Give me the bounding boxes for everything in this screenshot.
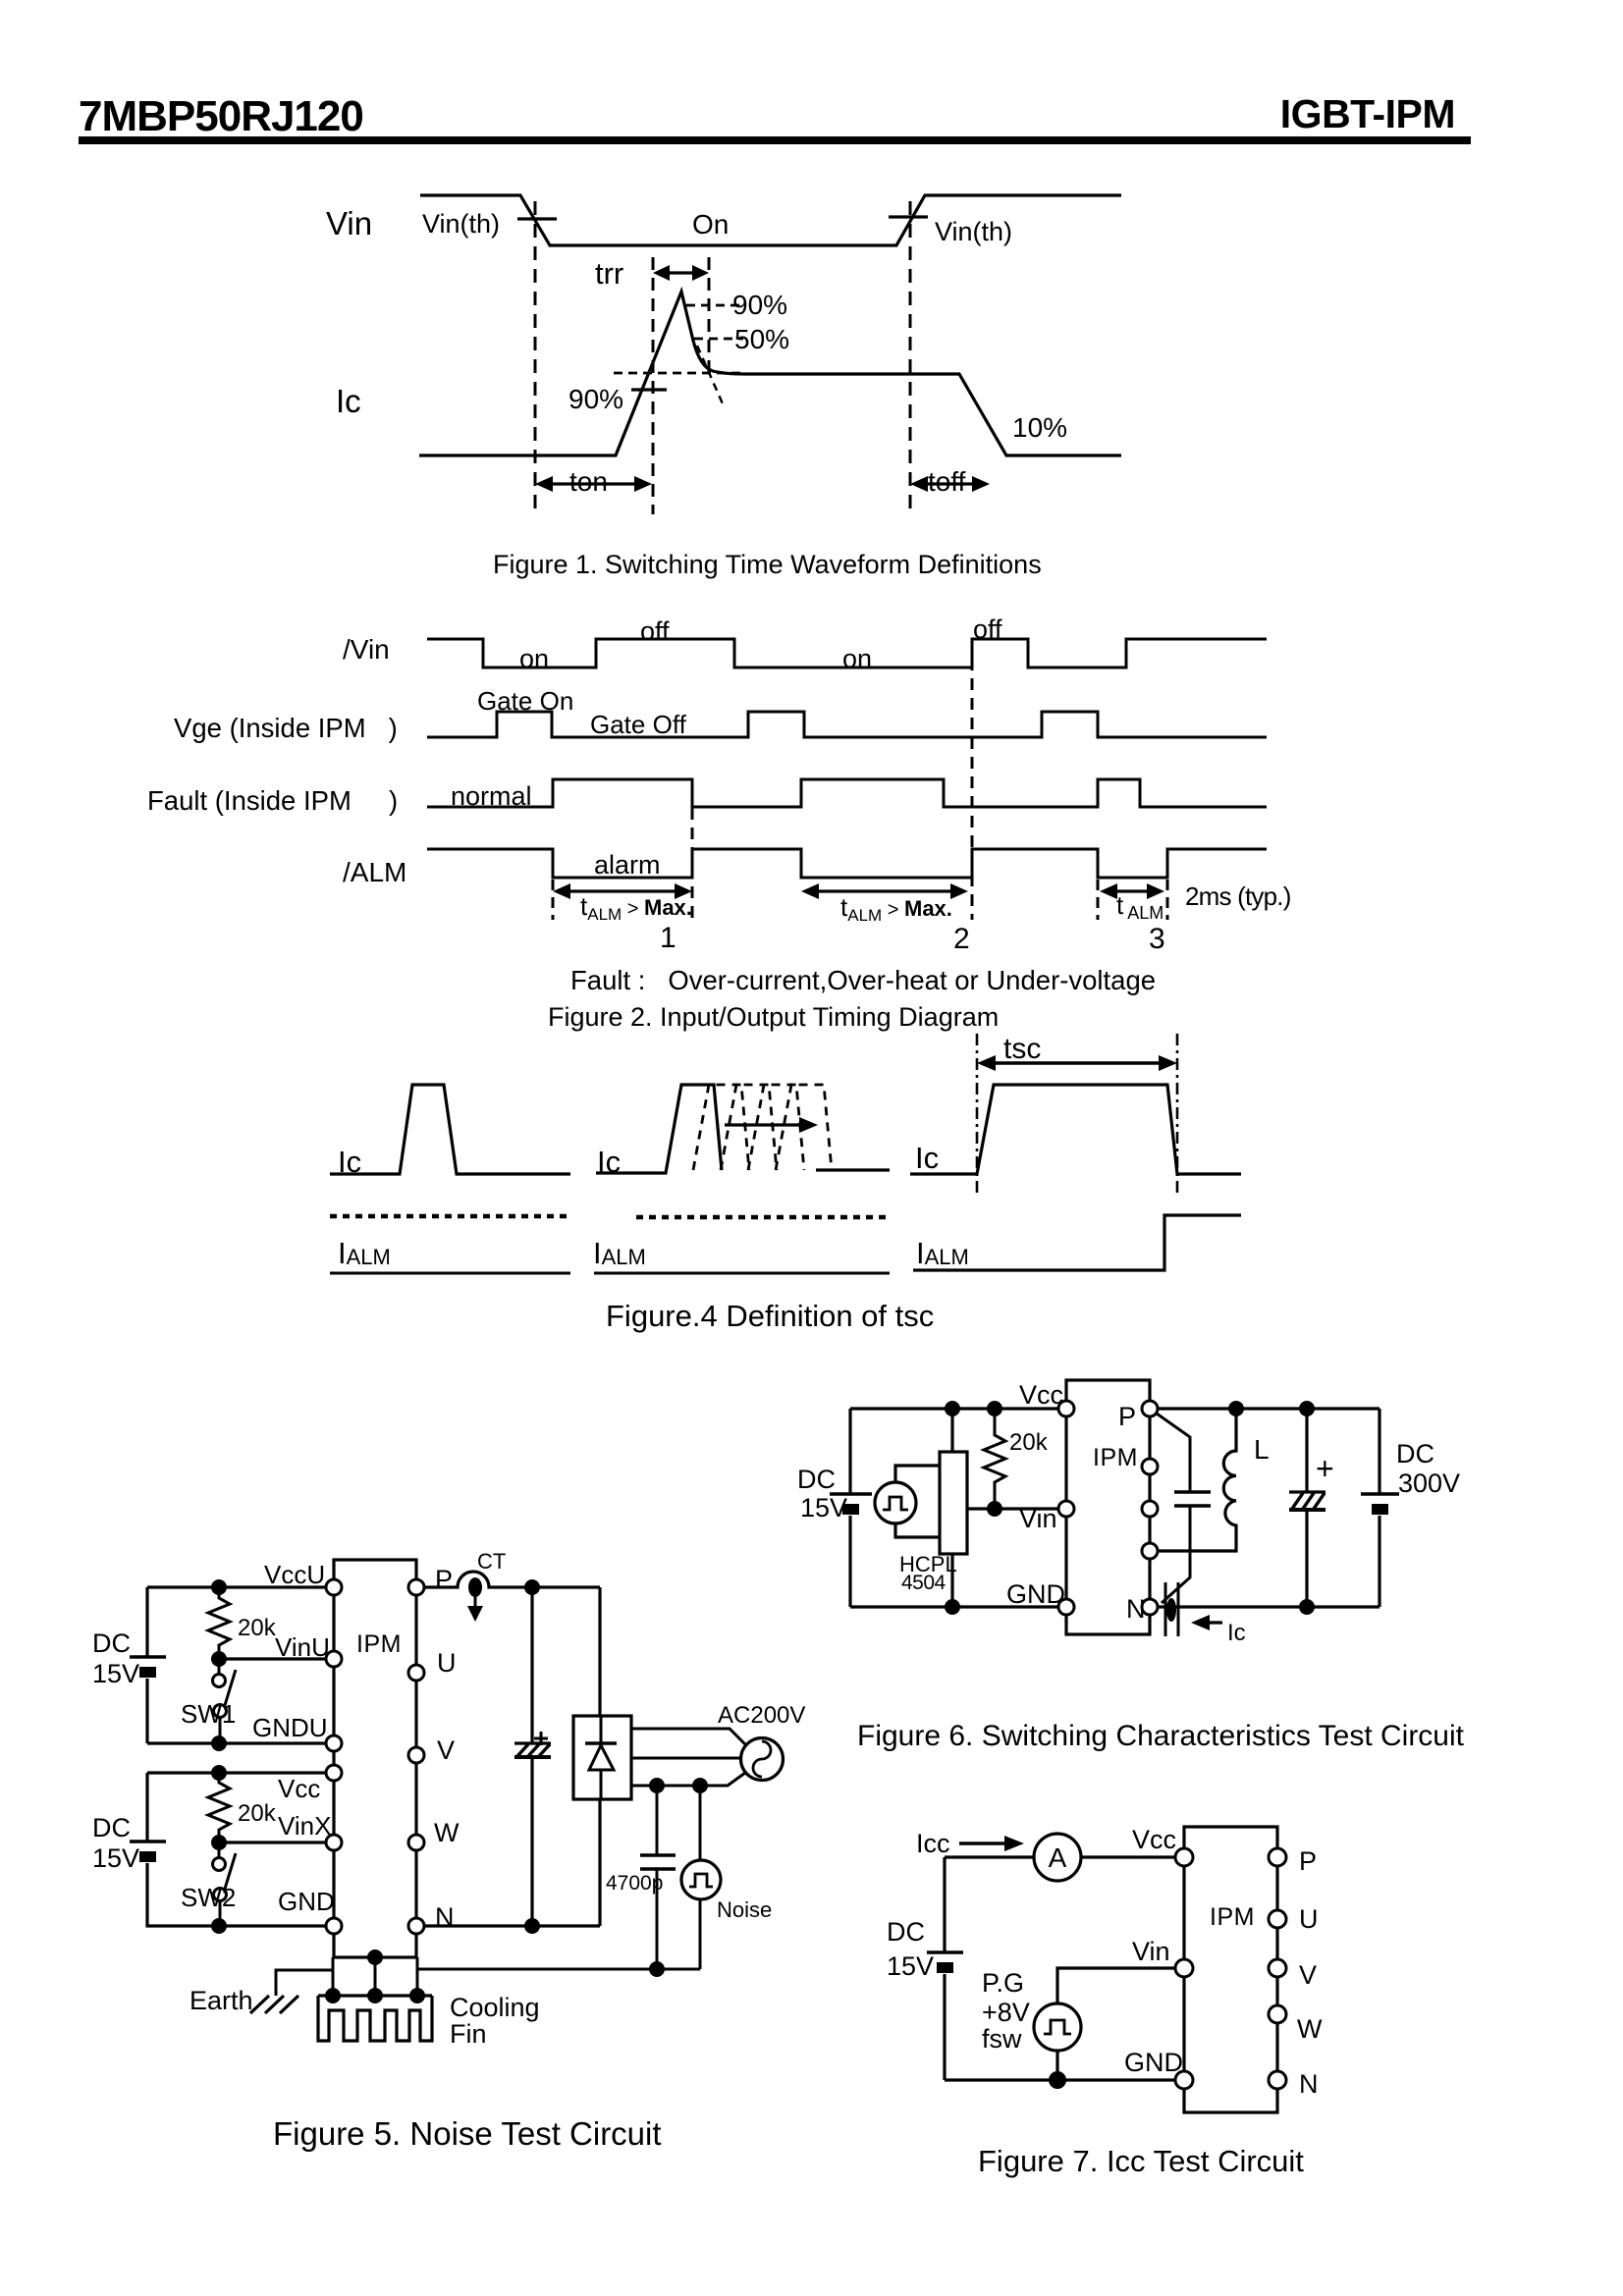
wire IPM base left stub bbox=[332, 1957, 335, 1996]
terminal N (fig5) bbox=[408, 1918, 424, 1934]
svg-text:VinX: VinX bbox=[278, 1811, 331, 1841]
wire noise upper bbox=[699, 1786, 702, 1860]
electrolytic capacitor (fig5) bbox=[514, 1743, 551, 1757]
terminal U (fig5) bbox=[408, 1665, 424, 1681]
wire Vcc left (fig7) bbox=[945, 1855, 1035, 1858]
wire rectifier to N (fig5) bbox=[598, 1799, 601, 1926]
junction dot GNDU bbox=[211, 1735, 227, 1751]
svg-text:Figure 7. Icc Test Circuit: Figure 7. Icc Test Circuit bbox=[978, 2144, 1304, 2178]
terminal V (fig5) bbox=[408, 1747, 424, 1763]
svg-text:V: V bbox=[437, 1735, 455, 1765]
AC source AC200V bbox=[741, 1738, 784, 1781]
terminal W (fig5) bbox=[408, 1835, 424, 1850]
capacitor 4700p bbox=[640, 1855, 676, 1869]
wire GND bottom (fig7) bbox=[945, 2078, 1175, 2081]
terminal Vcc2 bbox=[326, 1765, 342, 1781]
svg-text:CT: CT bbox=[477, 1549, 506, 1574]
panel3 IALM step waveform bbox=[913, 1215, 1241, 1270]
junction dot fin right bbox=[409, 1988, 425, 2003]
resistor 20k upper (fig5) bbox=[208, 1587, 230, 1659]
wire P top (fig6) bbox=[1158, 1407, 1380, 1410]
wire AC top bbox=[631, 1729, 745, 1744]
terminal right 4 (fig6) bbox=[1142, 1543, 1158, 1559]
svg-text:50%: 50% bbox=[734, 324, 789, 354]
svg-text:Vin: Vin bbox=[1019, 1504, 1057, 1533]
panel2 Ic waveform bbox=[596, 1085, 722, 1173]
svg-text:P: P bbox=[1299, 1846, 1317, 1876]
svg-text:W: W bbox=[1297, 2014, 1323, 2044]
IPM box (fig5) bbox=[334, 1560, 416, 1957]
svg-text:1: 1 bbox=[660, 922, 676, 954]
terminal P (fig7) bbox=[1269, 1848, 1286, 1866]
wire N bottom (fig6) bbox=[1158, 1605, 1380, 1608]
wire P diagonal to capacitor bbox=[1157, 1414, 1190, 1492]
svg-text:Vin(th): Vin(th) bbox=[422, 209, 500, 239]
noise source bbox=[681, 1860, 721, 1899]
terminal Vin (fig7) bbox=[1175, 1959, 1193, 1977]
svg-text:U: U bbox=[1299, 1904, 1319, 1934]
svg-text:fsw: fsw bbox=[982, 2024, 1022, 2054]
svg-text:Figure 6. Switching Characteri: Figure 6. Switching Characteristics Test… bbox=[857, 1720, 1465, 1752]
battery DC15V (fig6) bbox=[830, 1494, 872, 1515]
svg-text:normal: normal bbox=[451, 781, 532, 811]
/ALM waveform bbox=[427, 849, 1267, 878]
wire GND (fig6) bbox=[850, 1605, 1066, 1608]
wire AC bottom bbox=[631, 1773, 745, 1786]
svg-text:DC: DC bbox=[92, 1813, 131, 1842]
tsc arrow bbox=[977, 1055, 1177, 1071]
svg-text:Earth: Earth bbox=[189, 1986, 253, 2015]
wire VinX (fig5) bbox=[219, 1841, 327, 1843]
svg-text:Noise: Noise bbox=[717, 1897, 772, 1922]
terminal VinX bbox=[326, 1835, 342, 1850]
wire VinU (fig5) bbox=[219, 1657, 327, 1660]
svg-text:15V: 15V bbox=[800, 1493, 847, 1522]
current probe CT (fig5) bbox=[467, 1577, 483, 1622]
tALM2 arrow bbox=[801, 883, 968, 899]
svg-text:IGBT-IPM: IGBT-IPM bbox=[1280, 91, 1455, 136]
wire supply1 left vertical bbox=[145, 1587, 148, 1743]
dashed 50% leader bbox=[694, 338, 743, 341]
terminal VccU bbox=[326, 1579, 342, 1595]
panel2 IALM line bbox=[594, 1272, 890, 1275]
wire DC-link branch lower bbox=[530, 1757, 533, 1926]
dashed 90% leader bbox=[686, 304, 743, 307]
wire P.G to Vin (fig7) bbox=[1057, 1968, 1175, 2003]
svg-text:Fin: Fin bbox=[450, 2019, 487, 2049]
wire 4700p upper bbox=[656, 1786, 659, 1855]
svg-text:toff: toff bbox=[928, 466, 966, 497]
wire Vcc top (fig6) bbox=[850, 1407, 1066, 1410]
Vge waveform bbox=[427, 712, 1267, 737]
svg-text:off: off bbox=[973, 614, 1002, 644]
ammeter A bbox=[1034, 1834, 1081, 1881]
Fault waveform bbox=[427, 779, 1267, 807]
toff arrow bbox=[910, 476, 990, 492]
tALM1 arrow bbox=[553, 883, 692, 899]
terminal right 3 (fig6) bbox=[1142, 1501, 1158, 1517]
svg-text:Vcc: Vcc bbox=[1132, 1825, 1176, 1854]
svg-text:off: off bbox=[640, 616, 670, 646]
svg-text:90%: 90% bbox=[568, 384, 623, 414]
svg-text:DC: DC bbox=[92, 1629, 131, 1658]
svg-text:Gate On: Gate On bbox=[477, 686, 573, 716]
IPM box (fig6) bbox=[1066, 1380, 1150, 1634]
current probe CT (fig6) bbox=[1165, 1582, 1178, 1636]
junction dot VccU bbox=[211, 1579, 227, 1595]
terminal P (fig5) bbox=[408, 1579, 424, 1595]
tALM3 arrow bbox=[1100, 883, 1164, 899]
panel1 Ic waveform bbox=[330, 1085, 570, 1174]
dashed tail extrapolation bbox=[697, 346, 725, 408]
terminal V (fig7) bbox=[1269, 1959, 1286, 1977]
junction dot 20k top bbox=[987, 1401, 1002, 1416]
svg-text:SW1: SW1 bbox=[181, 1699, 236, 1729]
svg-text:+: + bbox=[1316, 1451, 1334, 1486]
/Vin waveform bbox=[427, 639, 1267, 667]
Icc arrow bbox=[959, 1836, 1024, 1851]
svg-text:4504: 4504 bbox=[901, 1572, 947, 1594]
svg-text:VccU: VccU bbox=[264, 1560, 325, 1589]
svg-text:Cooling: Cooling bbox=[450, 1993, 540, 2022]
svg-text:15V: 15V bbox=[92, 1659, 139, 1688]
Ic arrow (fig6) bbox=[1191, 1615, 1222, 1630]
svg-text:Ic: Ic bbox=[1227, 1620, 1246, 1646]
battery DC15V upper (fig5) bbox=[130, 1657, 166, 1678]
svg-text:on: on bbox=[842, 644, 872, 673]
junction dot GND (fig7) bbox=[1049, 2071, 1066, 2089]
svg-text:On: On bbox=[692, 209, 729, 240]
tick Vin(th) right bbox=[889, 215, 928, 218]
pulse generator source (fig6) bbox=[875, 1482, 916, 1523]
wire P.G to GND (fig7) bbox=[1055, 2051, 1058, 2080]
svg-text:Vin: Vin bbox=[1132, 1937, 1170, 1966]
wire right vertical upper (fig5) bbox=[598, 1587, 601, 1716]
trr arrow bbox=[653, 265, 709, 281]
terminal N (fig7) bbox=[1269, 2071, 1286, 2089]
wire Vcc2 (fig5) bbox=[147, 1771, 327, 1774]
panel2 ghost pulse 4 bbox=[776, 1085, 832, 1170]
wire P with CT hump bbox=[424, 1572, 600, 1587]
svg-text:ton: ton bbox=[569, 466, 608, 497]
svg-text:2: 2 bbox=[953, 923, 970, 955]
dashed Ic 100% level bbox=[614, 372, 745, 375]
battery DC15V (fig7) bbox=[927, 1952, 963, 1973]
svg-text:GND: GND bbox=[1006, 1579, 1065, 1609]
svg-text:15V: 15V bbox=[92, 1843, 139, 1873]
svg-text:DC: DC bbox=[1396, 1439, 1434, 1468]
terminal VinU bbox=[326, 1651, 342, 1667]
junction dot VinX bbox=[211, 1835, 227, 1850]
terminal right 2 (fig6) bbox=[1142, 1459, 1158, 1474]
wire supply2 left vertical bbox=[147, 1773, 327, 1926]
dashed stub left of tALM3 bbox=[1097, 880, 1100, 920]
svg-text:Figure 1. Switching Time Wavef: Figure 1. Switching Time Waveform Defini… bbox=[493, 550, 1042, 579]
dashed vertical at 2 bbox=[971, 639, 974, 920]
panel3 Ic waveform bbox=[910, 1085, 1241, 1174]
switch SW1 bbox=[213, 1659, 237, 1743]
junction dot Vcc2 bbox=[211, 1765, 227, 1781]
header rule bbox=[79, 136, 1471, 144]
svg-text:VinU: VinU bbox=[275, 1632, 330, 1662]
junction dot fin center bbox=[367, 1988, 383, 2003]
svg-text:90%: 90% bbox=[732, 290, 787, 320]
wire HCPL bottom bbox=[950, 1554, 953, 1607]
Vin waveform bbox=[420, 195, 1121, 245]
svg-text:300V: 300V bbox=[1398, 1468, 1460, 1498]
svg-text:trr: trr bbox=[595, 256, 623, 291]
junction dot VinU bbox=[211, 1651, 227, 1667]
battery DC15V lower (fig5) bbox=[130, 1842, 166, 1862]
Ic waveform bbox=[419, 292, 1121, 455]
junction dot electrolytic top bbox=[1299, 1401, 1315, 1416]
svg-text:W: W bbox=[434, 1818, 460, 1847]
wire right vertical (fig6) bbox=[1378, 1409, 1380, 1607]
wire noise lower bbox=[699, 1899, 702, 1969]
svg-text:DC: DC bbox=[887, 1917, 925, 1947]
dashed line ton-start bbox=[534, 201, 537, 508]
svg-text:/Vin: /Vin bbox=[343, 634, 390, 665]
svg-text:Figure 5. Noise Test Circuit: Figure 5. Noise Test Circuit bbox=[273, 2115, 662, 2152]
svg-text:Ic: Ic bbox=[915, 1141, 939, 1175]
wire 4700p lower bbox=[656, 1869, 659, 1969]
svg-text:20k: 20k bbox=[1009, 1429, 1049, 1456]
terminal GND (fig7) bbox=[1175, 2071, 1193, 2089]
battery DC300V bbox=[1361, 1494, 1399, 1515]
svg-text:P.G: P.G bbox=[982, 1968, 1024, 1998]
junction dot 4700p bbox=[649, 1778, 665, 1793]
terminal GND2 bbox=[326, 1918, 342, 1934]
panel2 shift arrow bbox=[725, 1117, 818, 1133]
terminal N (fig6) bbox=[1142, 1599, 1158, 1615]
junction dot GND2 bbox=[211, 1918, 227, 1934]
ton arrow bbox=[535, 476, 652, 492]
dashed line toff-start bbox=[909, 201, 912, 509]
wire DC-link branch upper bbox=[530, 1587, 533, 1743]
svg-text:Ic: Ic bbox=[336, 383, 361, 419]
dashed stub right of tALM3 bbox=[1166, 880, 1169, 920]
panel2 ghost pulse 3 bbox=[748, 1085, 804, 1170]
svg-text:AC200V: AC200V bbox=[718, 1702, 805, 1729]
opto-coupler HCPL4504 box bbox=[940, 1452, 967, 1554]
svg-text:Icc: Icc bbox=[916, 1829, 950, 1858]
svg-text:tsc: tsc bbox=[1003, 1033, 1041, 1065]
svg-text:IPM: IPM bbox=[1210, 1903, 1255, 1931]
wire VccU (fig5) bbox=[147, 1585, 327, 1588]
junction dot inductor top bbox=[1228, 1401, 1244, 1416]
terminal Vin bbox=[1058, 1501, 1074, 1517]
wire pulse gen bottom to HCPL bbox=[895, 1524, 940, 1537]
wire left vertical (fig6) bbox=[848, 1409, 851, 1607]
svg-text:IPM: IPM bbox=[1093, 1444, 1138, 1471]
panel3 dashdot vertical left bbox=[976, 1034, 979, 1193]
panel2 ghost pulse 1 bbox=[693, 1085, 749, 1170]
wire HCPL top bbox=[950, 1409, 953, 1452]
svg-text:DC: DC bbox=[797, 1465, 836, 1494]
terminal W (fig7) bbox=[1269, 2005, 1286, 2023]
label + (fig5) bbox=[534, 1732, 548, 1745]
panel2 baseline tail bbox=[816, 1168, 890, 1171]
svg-text:7MBP50RJ120: 7MBP50RJ120 bbox=[79, 92, 363, 140]
svg-text:Vcc: Vcc bbox=[278, 1774, 320, 1803]
rectifier box bbox=[573, 1716, 631, 1799]
svg-text:Fault : Over-current,Over-he: Fault : Over-current,Over-heat or Under-… bbox=[570, 965, 1156, 995]
wire left vertical (fig7) bbox=[943, 1857, 946, 2080]
svg-text:U: U bbox=[437, 1648, 457, 1678]
diode (rectifier) bbox=[585, 1716, 617, 1799]
cooling fin heatsink bbox=[318, 1996, 432, 2041]
svg-text:GND: GND bbox=[278, 1887, 335, 1916]
svg-text:10%: 10% bbox=[1012, 412, 1067, 443]
wire Vin (fig6) bbox=[967, 1507, 1066, 1510]
tick Vin(th) left bbox=[517, 217, 557, 220]
panel1 dotted alarm level bbox=[330, 1214, 570, 1219]
svg-text:GND: GND bbox=[1124, 2048, 1183, 2077]
svg-text:alarm: alarm bbox=[594, 850, 661, 880]
wire capacitor to N diagonal bbox=[1162, 1506, 1190, 1603]
junction dot P branch bbox=[524, 1579, 540, 1595]
junction dot top-left bbox=[945, 1401, 960, 1416]
wire Vcc right (fig7) bbox=[1081, 1855, 1175, 1858]
svg-text:IPM: IPM bbox=[356, 1630, 402, 1658]
svg-text:Figure 2. Input/Output Timing: Figure 2. Input/Output Timing Diagram bbox=[548, 1002, 999, 1032]
svg-text:Vcc: Vcc bbox=[1019, 1380, 1063, 1410]
junction dot noise top bbox=[692, 1778, 708, 1793]
dashed line trr-right bbox=[708, 257, 711, 375]
wire IPM base right stub bbox=[416, 1957, 419, 1996]
dashed vertical at 1 bbox=[691, 808, 694, 920]
svg-text:/ALM: /ALM bbox=[343, 857, 406, 887]
svg-text:on: on bbox=[519, 644, 549, 673]
junction dot N branch bbox=[524, 1918, 540, 1934]
svg-text:Vin(th): Vin(th) bbox=[935, 217, 1012, 246]
svg-text:20k: 20k bbox=[238, 1615, 277, 1641]
terminal P (fig6) bbox=[1142, 1401, 1158, 1416]
svg-text:V: V bbox=[1299, 1960, 1317, 1990]
ground earth symbol bbox=[250, 1996, 298, 2013]
svg-text:15V: 15V bbox=[887, 1951, 934, 1981]
terminal GND bbox=[1058, 1599, 1074, 1615]
junction dot bottom return bbox=[649, 1961, 665, 1977]
switch SW2 bbox=[213, 1842, 237, 1926]
svg-text:+8V: +8V bbox=[982, 1998, 1030, 2027]
svg-text:N: N bbox=[1299, 2069, 1319, 2099]
wire bottom return (fig5) bbox=[417, 1968, 700, 1971]
svg-text:SW2: SW2 bbox=[181, 1883, 236, 1912]
dashed stub left of tALM1 bbox=[552, 880, 555, 920]
svg-text:3: 3 bbox=[1149, 923, 1165, 955]
junction dot electrolytic bottom bbox=[1299, 1599, 1315, 1615]
terminal GNDU bbox=[326, 1735, 342, 1751]
wire IPM base center stub bbox=[374, 1957, 377, 1996]
svg-text:4700p: 4700p bbox=[606, 1872, 663, 1895]
terminal Vcc (fig7) bbox=[1175, 1848, 1193, 1866]
svg-text:Fault (Inside IPM ): Fault (Inside IPM ) bbox=[147, 785, 398, 816]
inductor L (fig6) bbox=[1158, 1409, 1236, 1551]
panel1 IALM line bbox=[330, 1272, 570, 1275]
svg-text:Vin: Vin bbox=[326, 205, 372, 241]
wire earth link bbox=[276, 1970, 333, 1996]
junction dot GND bbox=[945, 1599, 960, 1615]
svg-text:2ms (typ.): 2ms (typ.) bbox=[1185, 881, 1291, 911]
svg-text:Figure.4 Definition of tsc: Figure.4 Definition of tsc bbox=[606, 1299, 934, 1333]
wire pulse gen top to HCPL bbox=[895, 1466, 940, 1481]
panel2 dotted alarm level bbox=[636, 1215, 890, 1220]
svg-text:L: L bbox=[1254, 1434, 1270, 1465]
junction dot IPM base bbox=[367, 1949, 383, 1965]
wire N (fig5) bbox=[424, 1924, 600, 1927]
IPM box (fig7) bbox=[1184, 1827, 1277, 2112]
resistor 20k lower (fig5) bbox=[208, 1773, 230, 1842]
junction dot Vin bbox=[987, 1501, 1002, 1517]
tick 90% rise bbox=[631, 388, 667, 391]
svg-text:P: P bbox=[1118, 1402, 1136, 1431]
terminal U (fig7) bbox=[1269, 1910, 1286, 1928]
terminal Vcc bbox=[1058, 1401, 1074, 1416]
svg-text:P: P bbox=[435, 1565, 453, 1594]
svg-text:Vge (Inside IPM ): Vge (Inside IPM ) bbox=[174, 713, 398, 743]
wire AC middle bbox=[631, 1757, 742, 1760]
junction dot fin left bbox=[325, 1988, 341, 2003]
electrolytic capacitor (fig6) bbox=[1289, 1409, 1325, 1607]
panel3 dashdot vertical right bbox=[1176, 1034, 1179, 1193]
capacitor snubber (fig6) bbox=[1174, 1492, 1211, 1506]
dashed line trr-left bbox=[652, 257, 655, 514]
panel2 ghost pulse 2 bbox=[721, 1085, 777, 1170]
svg-text:GNDU: GNDU bbox=[252, 1713, 328, 1742]
resistor 20k (fig6) bbox=[984, 1409, 1005, 1509]
svg-text:20k: 20k bbox=[238, 1800, 277, 1827]
wire GNDU (fig5) bbox=[147, 1741, 327, 1744]
pulse generator P.G bbox=[1034, 2003, 1081, 2051]
svg-text:Gate Off: Gate Off bbox=[590, 710, 687, 739]
svg-text:A: A bbox=[1049, 1842, 1067, 1873]
